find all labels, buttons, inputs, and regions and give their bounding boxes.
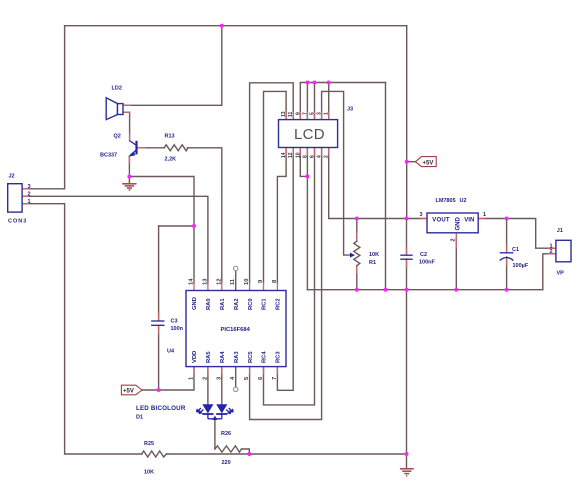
label PIC pin names bottom (192, 351, 281, 363)
wire C1 bottom lead (506, 257, 508, 290)
svg-text:12: 12 (216, 279, 222, 285)
svg-text:R13: R13 (165, 134, 175, 140)
svg-text:RC5: RC5 (248, 351, 254, 363)
pin stubs J1 (549, 248, 556, 254)
wire LCD bottom pin10 jog to pin8 net (300, 148, 307, 177)
svg-text:GND: GND (192, 297, 198, 310)
capacitor C1 100uF plates (500, 253, 514, 261)
wire Q2 base to R13 (138, 147, 164, 149)
svg-text:2: 2 (324, 155, 330, 158)
svg-text:VOUT: VOUT (432, 218, 450, 224)
pin stubs speaker LD2 (123, 105, 130, 112)
svg-text:J3: J3 (347, 107, 353, 113)
resistor R26 220 (215, 446, 242, 452)
potentiometer R1 wiper arrow (350, 253, 355, 258)
svg-text:C2: C2 (420, 252, 427, 258)
wire LED D1 common cathode to R26 (214, 419, 216, 449)
svg-text:7: 7 (272, 377, 278, 380)
wire LCD bottom pin14 jog to PIC RC2 (277, 148, 286, 284)
pin stubs J2 (22, 189, 28, 204)
svg-text:10: 10 (295, 152, 301, 158)
svg-text:Q2: Q2 (114, 134, 121, 140)
svg-text:10K: 10K (144, 470, 154, 476)
speaker LD2 (106, 98, 123, 120)
wire +5V flag right stem from top rail (406, 26, 408, 162)
svg-text:C1: C1 (512, 247, 519, 253)
svg-text:C3: C3 (171, 319, 178, 325)
svg-text:7: 7 (302, 112, 308, 115)
svg-text:1: 1 (28, 199, 31, 205)
connector J1 box (556, 240, 571, 261)
svg-text:1: 1 (324, 112, 330, 115)
wire C3 top to pin14 net (159, 225, 194, 227)
pin stubs C3 (158, 314, 160, 333)
svg-text:RC2: RC2 (276, 298, 282, 310)
wire R13 right to PIC RA1 (187, 148, 221, 283)
svg-text:220: 220 (222, 460, 231, 466)
wire LCD top pin11 to PIC RC0 (250, 83, 294, 283)
svg-text:100µF: 100µF (513, 263, 529, 269)
svg-text:10K: 10K (369, 252, 379, 258)
wire LCD pin1 stub to rail (328, 83, 330, 120)
wire J1 pin2 to GND rail (543, 254, 556, 290)
connector LCD J3 box (279, 120, 338, 148)
wire GND rail (307, 289, 542, 291)
wire LCD pin3 VEE to pot wiper (322, 91, 352, 255)
wire C1 top lead (506, 219, 508, 253)
svg-text:3: 3 (317, 112, 323, 115)
wire C2 top lead (406, 219, 408, 256)
wire PIC pin3 to LED anode (221, 367, 223, 405)
potentiometer R1 10K body (354, 241, 360, 265)
label LCD bottom pin numbers (281, 152, 330, 158)
transistor Q2 BC337 (129, 141, 137, 157)
no-connect circle PIC pin4 (234, 387, 238, 391)
svg-text:RC3: RC3 (276, 351, 282, 363)
svg-text:2: 2 (451, 238, 457, 241)
svg-text:11: 11 (288, 111, 294, 117)
wire J2 pin1 down to bottom rail (22, 204, 142, 454)
svg-text:4: 4 (317, 155, 323, 158)
svg-text:J1: J1 (557, 228, 563, 234)
svg-text:LM7805: LM7805 (436, 198, 456, 204)
svg-text:RA1: RA1 (220, 298, 226, 310)
wire C2 bottom lead (406, 259, 408, 290)
label PIC pin numbers bottom (189, 376, 278, 380)
svg-text:6: 6 (310, 155, 316, 158)
label J2 pin numbers (28, 184, 31, 205)
svg-text:CON3: CON3 (8, 219, 27, 225)
ground symbol at Q2 emitter (122, 177, 136, 191)
wire LCD top pin13 to PIC RC1 (264, 91, 287, 283)
svg-text:RA5: RA5 (206, 351, 212, 363)
label PIC pin numbers top (189, 278, 278, 285)
wire LCD bottom pin6 to PIC RC4 bracket (264, 148, 315, 405)
svg-text:12: 12 (288, 152, 294, 158)
capacitor C3 100n plates (151, 321, 164, 325)
svg-text:3: 3 (28, 184, 31, 190)
pin stubs pot R1 (356, 234, 358, 274)
svg-text:14: 14 (281, 152, 287, 158)
svg-text:J2: J2 (9, 174, 15, 180)
wire PIC pin2 to LED anode (207, 367, 209, 405)
svg-text:3: 3 (420, 212, 423, 218)
svg-text:100nF: 100nF (419, 260, 436, 266)
svg-text:PIC16F684: PIC16F684 (221, 327, 251, 333)
pin stubs PIC bottom (194, 367, 277, 374)
wire pot R1 bottom lead (356, 266, 358, 290)
wire Q2 emitter to ground (128, 156, 130, 177)
wire LCD bottom pin4 to PIC RC5 bracket (250, 148, 322, 420)
svg-text:VP: VP (557, 271, 565, 277)
svg-text:11: 11 (230, 278, 236, 285)
resistor R13 2,2K (164, 145, 188, 151)
svg-text:2: 2 (550, 249, 553, 255)
svg-text:2,2K: 2,2K (165, 157, 177, 163)
wire LCD pin7 stub to rail (306, 83, 308, 120)
svg-text:+5V: +5V (423, 160, 434, 166)
wire C3 bottom to +5V node (158, 326, 160, 391)
svg-text:R26: R26 (221, 431, 231, 437)
LED bicolour D1 (197, 404, 234, 420)
svg-text:2: 2 (202, 377, 208, 380)
svg-text:13: 13 (202, 278, 208, 285)
svg-text:10: 10 (244, 279, 250, 285)
svg-text:BC337: BC337 (100, 153, 117, 159)
pin stubs PIC top (194, 283, 277, 291)
wire C3 top lead (158, 226, 160, 321)
wire +5V top rail (65, 25, 407, 27)
svg-text:1: 1 (483, 212, 486, 218)
pin stubs C2 (406, 248, 408, 267)
wire ground rail stem down to GND rail (385, 83, 387, 290)
svg-text:100n: 100n (171, 326, 184, 332)
connector J2 box (8, 184, 22, 212)
svg-text:RA0: RA0 (206, 298, 212, 310)
resistor R25 10K (142, 451, 167, 457)
svg-text:2: 2 (28, 192, 31, 198)
ground symbol main bottom (400, 469, 414, 476)
wire left vertical +5V to J2 pin3 (22, 26, 65, 189)
svg-text:VDD: VDD (192, 351, 198, 363)
svg-text:RA3: RA3 (234, 351, 240, 363)
svg-text:GND: GND (455, 217, 461, 231)
wire bottom rail R25 to ground stem (166, 453, 406, 455)
wire VIN to J1 pin1 (478, 219, 556, 249)
+5V power flag right (415, 157, 436, 167)
label LCD top pin numbers (281, 111, 330, 117)
no-connect circle PIC pin11 (234, 266, 238, 270)
+5V power flag bottom left (121, 385, 142, 395)
svg-text:RC4: RC4 (262, 351, 268, 363)
pin stubs C1 (506, 246, 508, 266)
pin stub LM7805 GND (455, 233, 457, 248)
pin stubs LM7805 (421, 218, 484, 220)
wire speaker bottom terminal to Q2 collector (123, 112, 130, 140)
svg-text:R1: R1 (369, 260, 376, 266)
wire J2 pin2 to PIC RA0 (22, 196, 208, 283)
wire +5V stem flag to VOUT rail (406, 162, 408, 219)
IC PIC16F684 U4 box (186, 291, 286, 367)
wire R26 right lead to bottom rail (242, 449, 250, 454)
wire LCD bottom pin8 down to GND rail (306, 148, 308, 290)
svg-text:VIN: VIN (464, 218, 474, 224)
svg-text:RC1: RC1 (262, 298, 268, 310)
svg-text:14: 14 (189, 278, 195, 285)
regulator LM7805 U2 box (427, 213, 478, 233)
wire PIC pin11 stub n/c (235, 271, 237, 291)
wire LCD bottom pin12 to PIC RC3 bracket (277, 148, 293, 391)
wire +5V flag to PIC VDD pin1 (142, 367, 194, 390)
wire ground node to PIC GND pin14 (129, 177, 194, 284)
svg-text:U2: U2 (460, 198, 467, 204)
wire speaker top terminal to +5V rail (123, 26, 222, 106)
wire pot R1 top lead (356, 219, 358, 242)
svg-text:9: 9 (295, 112, 301, 115)
wire flag attach right (407, 161, 416, 163)
svg-text:LCD: LCD (294, 126, 325, 143)
svg-text:R25: R25 (144, 441, 154, 447)
svg-text:LD2: LD2 (112, 86, 122, 92)
wire LCD bottom pin2 to +5V rail (329, 148, 427, 219)
wire LM7805 GND pin to GND rail (455, 238, 457, 290)
pin stubs LCD (286, 112, 329, 155)
svg-text:D1: D1 (136, 415, 143, 421)
svg-text:8: 8 (302, 155, 308, 158)
label PIC pin names top (192, 297, 281, 310)
pin stubs Q2 (129, 134, 144, 164)
wire LCD ground rail top (300, 83, 385, 120)
svg-text:LED BICOLOUR: LED BICOLOUR (136, 405, 186, 412)
svg-text:RA2: RA2 (234, 298, 240, 310)
svg-text:+5V: +5V (123, 389, 134, 395)
wire GND stem to bottom ground (406, 290, 408, 468)
capacitor C2 100nF plates (400, 255, 412, 259)
svg-text:RA4: RA4 (220, 351, 226, 363)
svg-text:U4: U4 (167, 349, 175, 355)
wire LCD pin5 stub to rail (314, 83, 316, 120)
wire PIC pin4 stub n/c (235, 367, 237, 388)
svg-text:5: 5 (310, 112, 316, 115)
svg-text:13: 13 (281, 111, 287, 117)
svg-text:RC0: RC0 (248, 298, 254, 310)
